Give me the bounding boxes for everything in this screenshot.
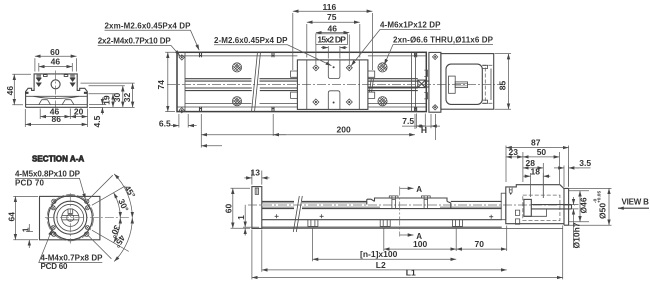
end view base profile bbox=[26, 88, 88, 108]
svg-text:3.5: 3.5 bbox=[579, 158, 591, 168]
angle ray -30 bbox=[92, 186, 125, 205]
shaft break marks bbox=[369, 79, 373, 93]
corner screw top-left bbox=[179, 55, 184, 60]
side screw slot top right bbox=[415, 52, 417, 57]
angle ray +30 bbox=[92, 230, 129, 251]
table body bbox=[367, 198, 451, 209]
svg-text:Ø50: Ø50 bbox=[598, 203, 608, 219]
angle arc 30 lower bbox=[114, 218, 121, 243]
spigot ring bbox=[564, 188, 569, 225]
dimension 87 bbox=[506, 146, 569, 187]
dimension 20 bottom bbox=[70, 109, 87, 128]
boss outer circle bbox=[48, 196, 92, 240]
vertical centerline of end view bbox=[55, 71, 57, 111]
bearing block with cross bbox=[418, 80, 426, 88]
svg-text:2xn-Ø6.6 THRU,Ø11x6 DP: 2xn-Ø6.6 THRU,Ø11x6 DP bbox=[393, 36, 494, 45]
dimension 60 side bbox=[231, 188, 251, 228]
dimension 50 bbox=[523, 152, 560, 184]
carriage top pocket bbox=[328, 60, 340, 79]
M6 hole 4 bbox=[346, 99, 352, 105]
svg-text:74: 74 bbox=[156, 80, 166, 90]
dimension 30 bbox=[89, 86, 125, 108]
mounting hole bottom-right (crosshatched) bbox=[378, 97, 387, 106]
grease port cross 3 bbox=[489, 215, 493, 219]
end plate screw bbox=[255, 188, 258, 194]
svg-text:2xm-M2.6x0.45Px4 DP: 2xm-M2.6x0.45Px4 DP bbox=[105, 21, 192, 30]
housing left squares bbox=[515, 210, 519, 224]
right rail groove mark bbox=[84, 92, 87, 94]
svg-text:15x2 DP: 15x2 DP bbox=[317, 34, 346, 44]
dimension diameter 46 bbox=[569, 191, 589, 222]
svg-text:L2: L2 bbox=[376, 260, 386, 270]
angle ray +45 bbox=[88, 235, 111, 258]
plan body outline bbox=[177, 52, 426, 111]
bearing retainer right bbox=[501, 193, 506, 220]
bearing tabs bbox=[424, 70, 427, 99]
corner screw bottom-left bbox=[179, 108, 184, 113]
svg-text:46: 46 bbox=[328, 23, 338, 33]
dimension 23 bbox=[506, 152, 523, 182]
M2.6 hole bottom bbox=[333, 102, 335, 104]
svg-text:46: 46 bbox=[51, 57, 61, 67]
dimension 28 bbox=[523, 163, 543, 198]
side screw slot bottom right bbox=[415, 107, 417, 112]
mounting hole top-left (crosshatched) bbox=[232, 63, 241, 72]
dimension 46 top bbox=[39, 63, 73, 72]
mounting hole bottom-left (crosshatched) bbox=[232, 97, 241, 106]
M5 screw 135deg top-left bbox=[52, 199, 56, 203]
dimension 32 bbox=[81, 83, 135, 107]
flange screw bottom bbox=[433, 105, 438, 110]
body break lines bbox=[252, 52, 261, 112]
dimension 75 bbox=[307, 22, 360, 57]
base plate bottom bbox=[262, 226, 502, 228]
svg-text:4.5: 4.5 bbox=[92, 115, 102, 127]
svg-text:20: 20 bbox=[74, 106, 84, 116]
section centerlines bbox=[45, 193, 131, 243]
svg-text:4-M5x0.8Px10 DP: 4-M5x0.8Px10 DP bbox=[15, 170, 81, 179]
body bottom edge bbox=[262, 219, 502, 221]
rail band inner lines bbox=[262, 203, 502, 207]
dimension 46 vertical left bbox=[12, 74, 31, 105]
bore circle bbox=[62, 209, 79, 226]
svg-text:7.5: 7.5 bbox=[402, 116, 414, 126]
svg-text:200: 200 bbox=[337, 124, 351, 134]
svg-text:PCD 60: PCD 60 bbox=[41, 262, 69, 271]
M4 screw 150deg left-top bbox=[51, 206, 55, 210]
dimension H bbox=[431, 114, 437, 140]
svg-text:1: 1 bbox=[20, 227, 30, 232]
svg-text:23: 23 bbox=[509, 147, 519, 157]
svg-text:70: 70 bbox=[475, 239, 485, 249]
foot 1 bbox=[308, 220, 318, 227]
M4 screw 330deg right-bottom bbox=[85, 226, 89, 230]
dimension 3.5 bbox=[554, 166, 591, 188]
dimension 60 bbox=[35, 56, 77, 71]
dimension (n-1)x100 bbox=[313, 229, 457, 262]
dimension L2 bbox=[262, 230, 507, 272]
side screw slot top x273 bbox=[272, 52, 274, 57]
foot 2 bbox=[380, 220, 390, 227]
svg-text:87: 87 bbox=[531, 138, 541, 148]
dimension 1 side bbox=[243, 205, 259, 236]
dimension 18 bbox=[524, 173, 551, 198]
dimension 13 bbox=[244, 171, 269, 185]
svg-text:A: A bbox=[416, 185, 422, 194]
carriage M4 screw right bbox=[64, 75, 75, 87]
dimension 86 bbox=[25, 109, 87, 127]
dimension 200 bbox=[201, 114, 415, 148]
foot 3 bbox=[453, 220, 463, 227]
svg-text:50: 50 bbox=[537, 147, 547, 157]
svg-text:60: 60 bbox=[50, 47, 60, 57]
svg-text:64: 64 bbox=[6, 212, 16, 222]
M6 hole 2 bbox=[346, 65, 352, 71]
carriage M4 screw left bbox=[36, 75, 47, 87]
svg-text:116: 116 bbox=[323, 2, 337, 12]
dimension 46 bottom bbox=[40, 109, 70, 120]
M4 screw 30deg right-top bbox=[85, 206, 89, 210]
shaft circle bbox=[67, 214, 74, 221]
section plate bbox=[40, 196, 100, 239]
svg-text:4-M6x1Px12 DP: 4-M6x1Px12 DP bbox=[380, 21, 441, 30]
table boss 2 bbox=[422, 196, 431, 209]
M6 hole 3 bbox=[313, 99, 319, 105]
angle arc 45 lower bbox=[114, 218, 132, 262]
hub slot bbox=[62, 216, 79, 220]
dimension 19 bbox=[89, 94, 116, 108]
motor flange plate bbox=[429, 52, 441, 112]
keyway notch bbox=[68, 209, 73, 213]
carriage outline bbox=[297, 60, 368, 110]
svg-text:Ø10h7: Ø10h7 bbox=[572, 222, 582, 248]
plan centerline bbox=[167, 84, 505, 86]
svg-text:[n-1]x100: [n-1]x100 bbox=[360, 249, 398, 259]
carriage right tabs bbox=[368, 71, 375, 98]
svg-text:60: 60 bbox=[224, 203, 234, 213]
section line A-A bbox=[399, 187, 401, 237]
screw shaft to bearing bbox=[368, 81, 429, 87]
motor housing bbox=[441, 54, 494, 110]
motor shaft bbox=[455, 82, 467, 88]
svg-text:1: 1 bbox=[236, 215, 246, 220]
svg-text:2-M2.6x0.45Px4 DP: 2-M2.6x0.45Px4 DP bbox=[214, 36, 288, 45]
svg-text:VIEW B: VIEW B bbox=[622, 198, 650, 207]
dimension 46 carriage bbox=[316, 33, 349, 64]
housing top screw bbox=[509, 188, 512, 193]
motor hidden lines bbox=[482, 65, 493, 103]
svg-text:PCD 70: PCD 70 bbox=[15, 178, 45, 187]
housing hidden pocket bbox=[523, 195, 560, 221]
svg-text:2x2-M4x0.7Px10 DP: 2x2-M4x0.7Px10 DP bbox=[98, 37, 172, 46]
spigot circle bbox=[54, 201, 87, 234]
rail centerline bbox=[248, 204, 575, 206]
dimension L1 bbox=[252, 226, 563, 280]
dimension 6.5 bbox=[171, 114, 197, 128]
svg-text:75: 75 bbox=[327, 12, 337, 22]
svg-text:30: 30 bbox=[112, 92, 122, 102]
motor face block bbox=[449, 76, 456, 93]
side screw slot bottom x273 bbox=[272, 107, 274, 112]
housing step under shaft bbox=[524, 209, 547, 216]
end view carriage block bbox=[34, 74, 77, 88]
carriage inner lines bbox=[307, 60, 360, 110]
left end plate bbox=[252, 187, 262, 229]
recess circle bbox=[57, 204, 84, 231]
svg-text:46: 46 bbox=[5, 86, 15, 96]
base mid line bbox=[26, 95, 88, 97]
rail band bbox=[262, 201, 502, 208]
svg-text:18: 18 bbox=[531, 166, 541, 176]
side screw slot top x200 bbox=[200, 52, 202, 57]
M5 screw 225deg bottom-left bbox=[52, 232, 56, 236]
right leg bbox=[62, 100, 74, 105]
M4 screw 210deg left-bottom bbox=[51, 226, 55, 230]
M5 screw 45deg top-right bbox=[85, 199, 89, 203]
dimension diameter 10h7 bbox=[572, 197, 579, 248]
plan body inner walls bbox=[177, 52, 426, 111]
left leg bbox=[39, 100, 51, 105]
svg-text:-0: -0 bbox=[592, 198, 598, 203]
mounting hole top-right (crosshatched) bbox=[378, 63, 387, 72]
carriage left tabs bbox=[291, 71, 298, 98]
section arrow A bottom bbox=[400, 234, 414, 236]
dimension 4.5 bbox=[89, 98, 106, 115]
motor body bbox=[446, 64, 482, 104]
svg-text:85: 85 bbox=[497, 80, 507, 90]
side break lines bbox=[293, 196, 302, 232]
motor rear tabs bbox=[482, 65, 491, 103]
svg-text:Ø46: Ø46 bbox=[579, 197, 589, 213]
svg-text:SECTION A-A: SECTION A-A bbox=[32, 155, 84, 164]
M6 hole 1 bbox=[313, 65, 319, 71]
base bed arc bbox=[34, 96, 80, 98]
table boss 1 bbox=[389, 196, 398, 209]
carriage bottom pocket bbox=[328, 91, 340, 110]
dimension 7.5 bbox=[402, 114, 440, 129]
left rail groove mark bbox=[25, 92, 28, 94]
rail lines lower bbox=[185, 88, 418, 91]
base bottom plate line bbox=[26, 104, 88, 106]
screw bore circle bbox=[51, 80, 60, 89]
section arrow A top bbox=[400, 187, 414, 189]
angle ray -45 bbox=[88, 175, 113, 200]
svg-text:100: 100 bbox=[413, 239, 427, 249]
dimension 85 bbox=[495, 54, 511, 110]
bearing block bbox=[524, 199, 531, 216]
grease port cross 2 bbox=[320, 214, 324, 218]
svg-text:13: 13 bbox=[251, 168, 261, 178]
dimension 1 section bbox=[26, 224, 33, 248]
M2.6 hole top bbox=[333, 66, 335, 68]
dimension 100 bbox=[384, 229, 456, 252]
dimension 15x2 DP framed bbox=[316, 34, 348, 59]
flange screw top bbox=[433, 54, 438, 59]
dimension 116 bbox=[293, 11, 373, 70]
output shaft bbox=[531, 205, 571, 209]
dimension 74 bbox=[165, 52, 175, 111]
ground line bbox=[252, 227, 563, 229]
svg-text:86: 86 bbox=[52, 114, 62, 124]
M5 screw 315deg bottom-right bbox=[85, 232, 89, 236]
angle arc 45 upper bbox=[114, 174, 132, 218]
VIEW B arrow bbox=[618, 207, 649, 209]
grease port cross 1 bbox=[275, 214, 279, 218]
dimension 70 bbox=[456, 226, 507, 252]
right housing block bbox=[506, 185, 564, 224]
svg-text:L1: L1 bbox=[406, 268, 416, 278]
dimension diameter 50 bbox=[569, 188, 612, 225]
side screw slot bottom x200 bbox=[200, 107, 202, 112]
dimension 64 bbox=[13, 196, 38, 239]
svg-text:32: 32 bbox=[122, 92, 132, 102]
svg-text:6.5: 6.5 bbox=[159, 118, 171, 128]
svg-text:19: 19 bbox=[102, 95, 112, 105]
rail lines upper bbox=[185, 79, 418, 81]
bolt circle PCD70 bbox=[47, 195, 93, 241]
angle arc 30 upper bbox=[114, 193, 121, 218]
svg-text:H: H bbox=[421, 125, 427, 135]
